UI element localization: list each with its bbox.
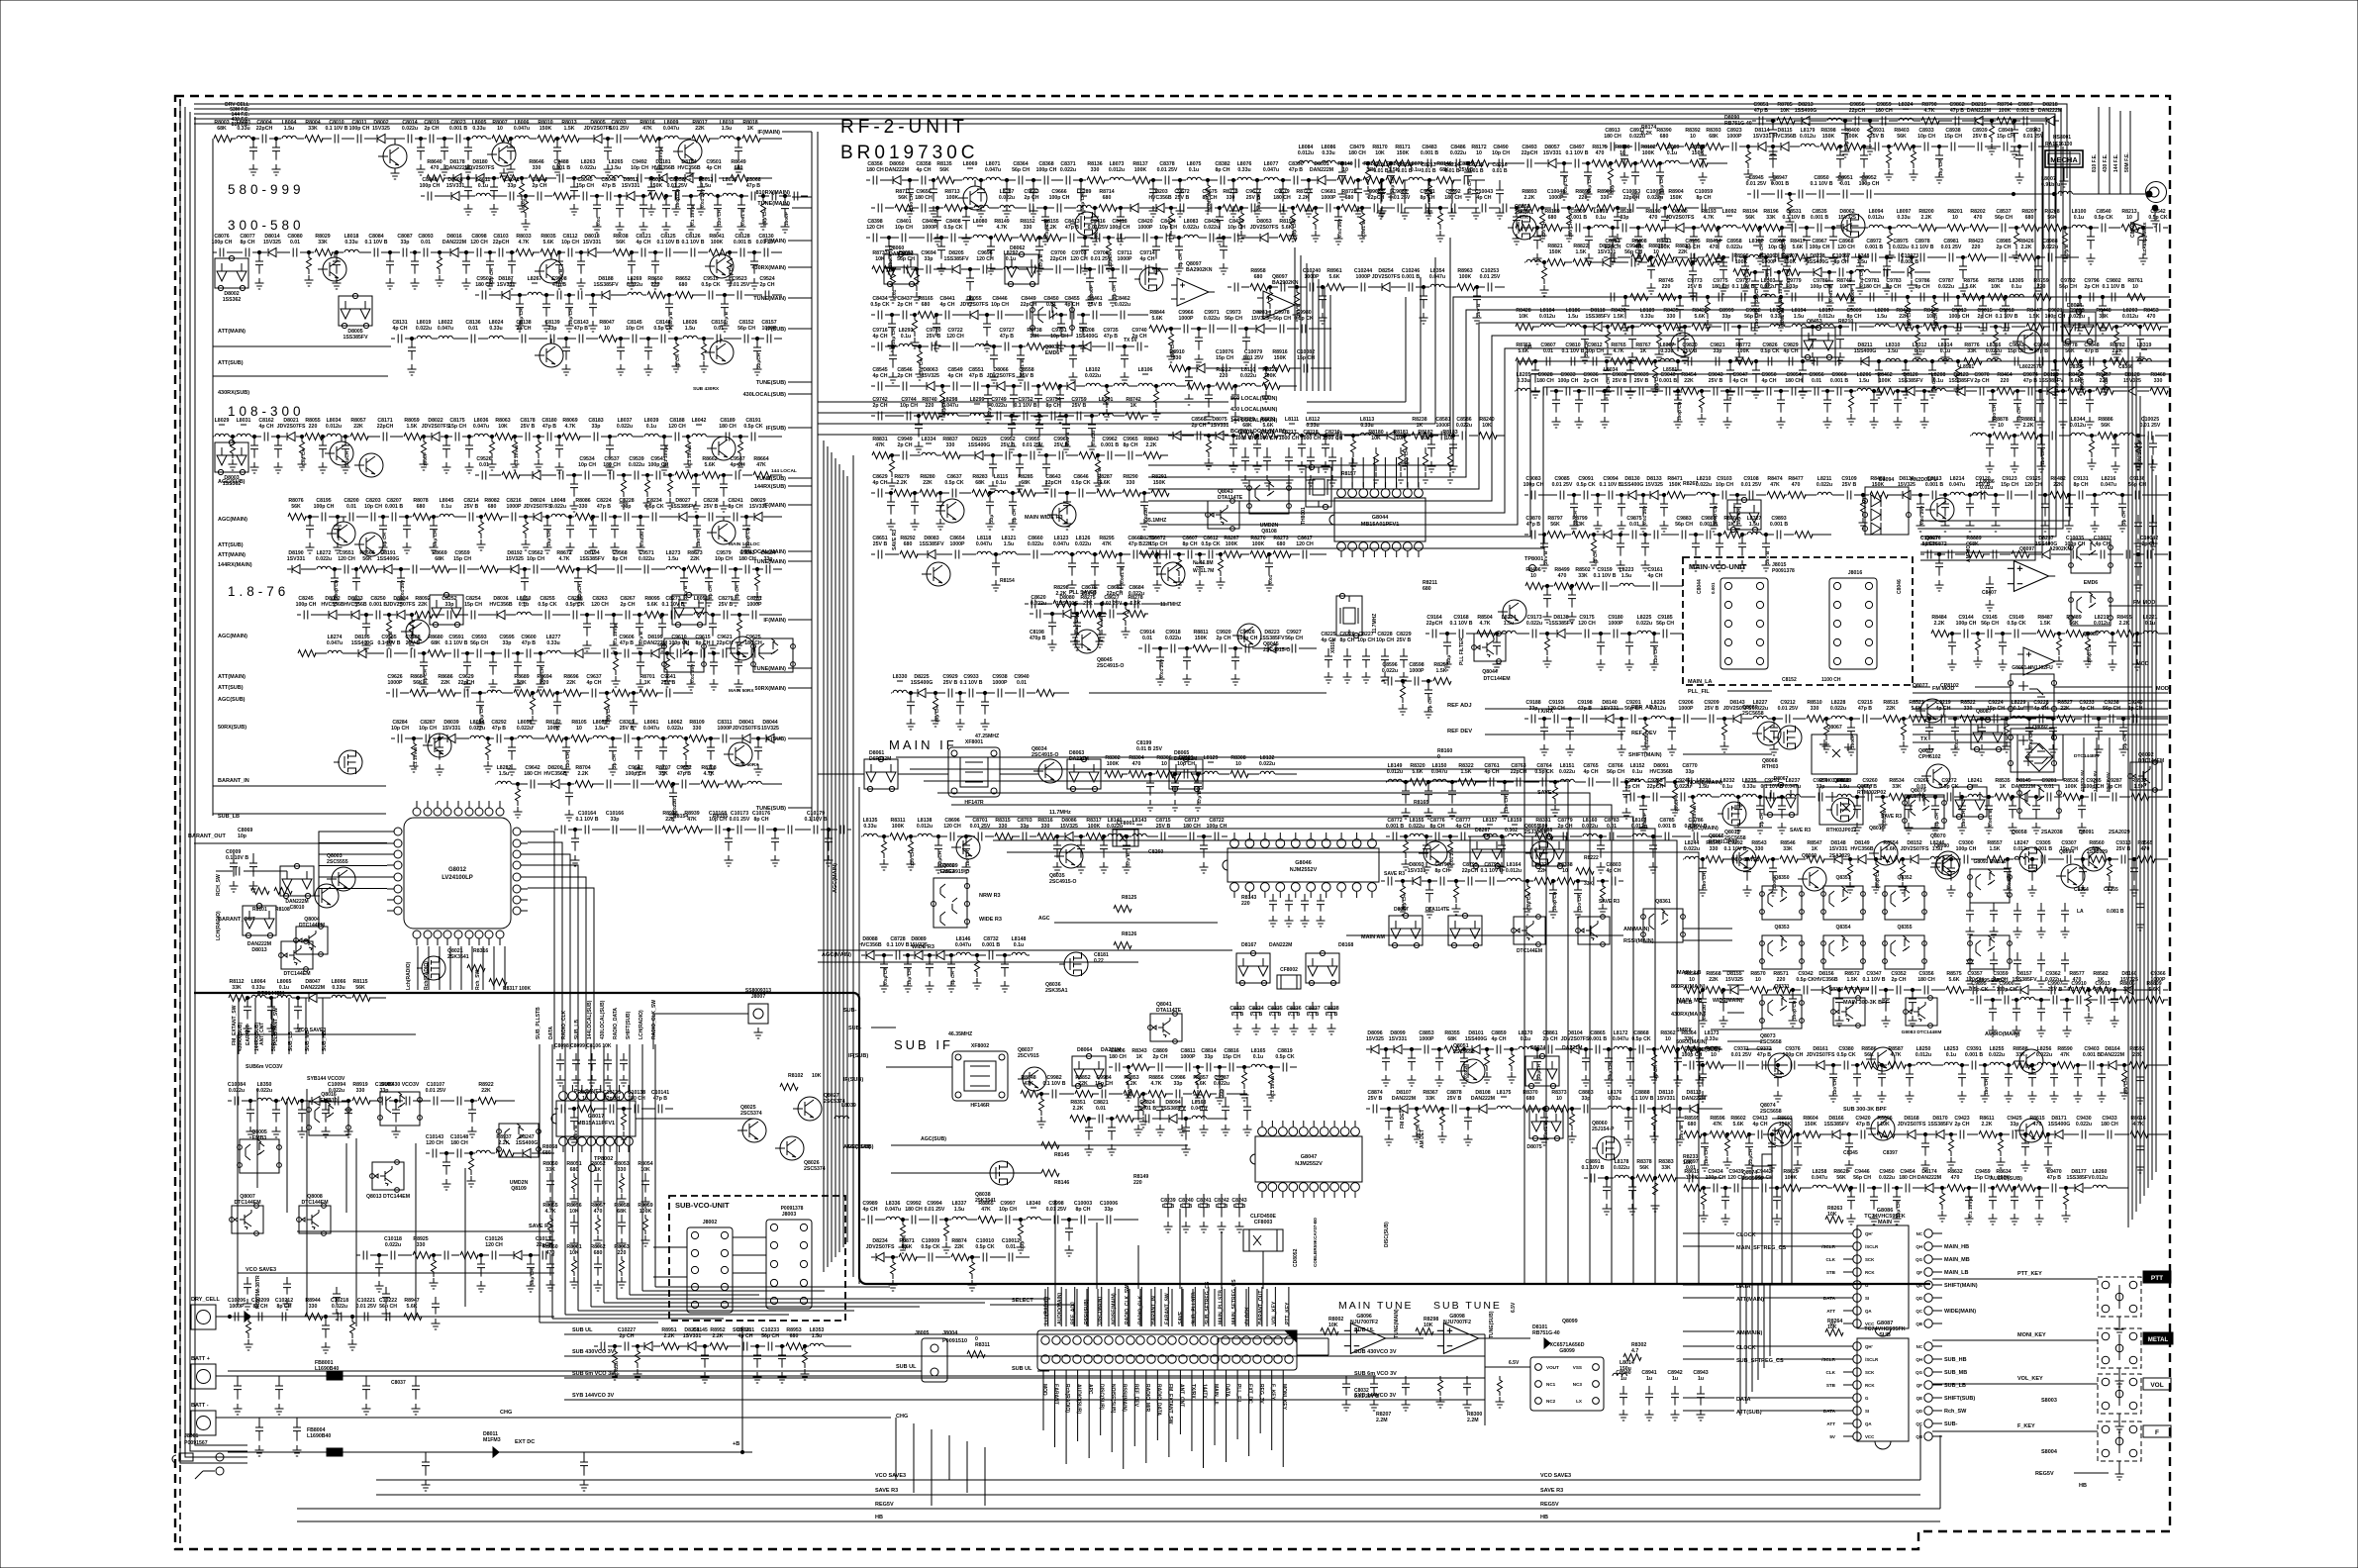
wire bbox=[212, 346, 214, 441]
node bbox=[1079, 178, 1082, 181]
svg-text:25V B: 25V B bbox=[1397, 637, 1412, 643]
capacitor C8537 bbox=[2002, 224, 2006, 233]
capacitor C8706 bbox=[1077, 836, 1085, 858]
svg-text:22pCH: 22pCH bbox=[1021, 302, 1037, 308]
wire bbox=[838, 464, 840, 1252]
node bbox=[1701, 145, 1704, 147]
svg-text:120 CH: 120 CH bbox=[946, 334, 964, 340]
svg-text:47p B: 47p B bbox=[1754, 108, 1768, 114]
ground bbox=[562, 764, 571, 775]
svg-text:8p CH: 8p CH bbox=[253, 1304, 268, 1310]
ground bbox=[570, 1277, 579, 1288]
inductor L8022 bbox=[439, 336, 452, 339]
IC XF8002 HF146R bbox=[952, 1051, 1008, 1101]
ground bbox=[610, 640, 619, 651]
node bbox=[335, 250, 338, 253]
resistor R8311 bbox=[890, 833, 908, 840]
resistor R8383 bbox=[1658, 1175, 1676, 1182]
svg-text:56K: 56K bbox=[1836, 1175, 1846, 1181]
wire bbox=[788, 393, 812, 395]
svg-text:0.047u: 0.047u bbox=[942, 403, 958, 409]
svg-text:4.7K: 4.7K bbox=[565, 424, 576, 430]
svg-text:100p CH: 100p CH bbox=[1558, 378, 1579, 384]
svg-text:0.33u: 0.33u bbox=[332, 985, 344, 991]
wire bbox=[1515, 227, 2168, 229]
ground bbox=[1117, 580, 1126, 591]
svg-text:68K: 68K bbox=[217, 126, 227, 132]
svg-text:1.5u: 1.5u bbox=[701, 183, 711, 189]
svg-text:10K: 10K bbox=[1827, 1324, 1837, 1330]
ground bbox=[1153, 580, 1162, 591]
node bbox=[1012, 384, 1015, 387]
capacitor C8402 bbox=[928, 234, 932, 243]
svg-text:0.1u: 0.1u bbox=[901, 334, 911, 340]
capacitor C8412 bbox=[1035, 238, 1043, 259]
svg-text:QH: QH bbox=[1916, 1244, 1922, 1249]
svg-text:AM DET: AM DET bbox=[1420, 1129, 1425, 1148]
svg-text:22pCH: 22pCH bbox=[577, 583, 583, 599]
diode D8060 bbox=[1676, 224, 1684, 233]
svg-text:0.001 B: 0.001 B bbox=[1901, 259, 1918, 265]
svg-text:EMD6: EMD6 bbox=[1045, 350, 1060, 356]
svg-text:PTT: PTT bbox=[2151, 1275, 2163, 1282]
inductor L8091 bbox=[1594, 225, 1608, 228]
svg-text:NOISE(MAIN): NOISE(MAIN) bbox=[1111, 1293, 1117, 1324]
svg-text:8p CH: 8p CH bbox=[1916, 284, 1930, 290]
resistor R8330 bbox=[1448, 836, 1453, 858]
svg-text:5.6K: 5.6K bbox=[1886, 846, 1897, 852]
wire bbox=[528, 865, 578, 1049]
svg-text:56p CH: 56p CH bbox=[1995, 215, 2013, 221]
diode D8101 bbox=[1472, 1045, 1480, 1054]
svg-text:0.01 B: 0.01 B bbox=[1492, 168, 1508, 174]
svg-text:DATA: DATA bbox=[1736, 1284, 1750, 1290]
svg-text:SUB 430RX: SUB 430RX bbox=[693, 386, 720, 392]
svg-text:Lch(RADIO): Lch(RADIO) bbox=[406, 961, 412, 990]
wire bbox=[818, 434, 1228, 436]
ground bbox=[298, 459, 307, 470]
node bbox=[1652, 1107, 1655, 1110]
svg-text:0.001 B: 0.001 B bbox=[1658, 824, 1676, 830]
svg-text:25V B: 25V B bbox=[1082, 591, 1097, 597]
svg-text:56p CH: 56p CH bbox=[1656, 621, 1674, 627]
node bbox=[1075, 612, 1078, 615]
capacitor C8121 bbox=[641, 248, 645, 257]
svg-text:0.01: 0.01 bbox=[290, 240, 300, 245]
svg-text:SUB IF: SUB IF bbox=[894, 1037, 953, 1052]
capacitor C8162 bbox=[264, 433, 268, 441]
capacitor C8242 bbox=[742, 517, 750, 539]
node bbox=[1599, 834, 1602, 837]
svg-text:10K: 10K bbox=[812, 1073, 822, 1079]
transistor G8030 EMG2 bbox=[932, 878, 970, 928]
svg-text:PLL_FIL: PLL_FIL bbox=[1235, 1384, 1241, 1404]
svg-text:180 CH: 180 CH bbox=[1899, 1175, 1916, 1181]
resistor R8143 bbox=[1363, 177, 1381, 184]
svg-text:6.5V: 6.5V bbox=[1509, 1360, 1520, 1366]
svg-text:4p CH: 4p CH bbox=[2096, 541, 2111, 547]
capacitor C8581 bbox=[1441, 432, 1445, 441]
svg-text:0.5p CK: 0.5p CK bbox=[1201, 541, 1221, 547]
ground bbox=[1057, 341, 1066, 351]
wire bbox=[2074, 1472, 2109, 1474]
svg-text:0.1 10V B: 0.1 10V B bbox=[377, 640, 400, 646]
svg-text:22pCH: 22pCH bbox=[1849, 108, 1866, 114]
capacitor C8525 bbox=[1756, 228, 1764, 249]
svg-text:330: 330 bbox=[417, 1242, 426, 1248]
svg-text:4p CH: 4p CH bbox=[675, 354, 681, 368]
capacitor C8191 bbox=[751, 433, 755, 441]
node bbox=[686, 435, 689, 438]
ground bbox=[410, 761, 419, 772]
wire bbox=[1271, 1370, 1273, 1450]
capacitor C8077 bbox=[246, 248, 249, 257]
capacitor C8151 bbox=[717, 335, 721, 343]
node bbox=[1404, 834, 1407, 837]
svg-text:0.012u: 0.012u bbox=[1800, 134, 1816, 140]
svg-text:4p CH: 4p CH bbox=[1762, 378, 1777, 384]
svg-text:680: 680 bbox=[594, 1250, 603, 1256]
svg-text:1.5K: 1.5K bbox=[1614, 314, 1624, 320]
wire bbox=[895, 1418, 897, 1480]
wire bbox=[1752, 1166, 1772, 1284]
resistor R8231 bbox=[1260, 433, 1278, 440]
svg-text:2.2K: 2.2K bbox=[2112, 348, 2123, 354]
node bbox=[1058, 384, 1061, 387]
wire bbox=[1742, 827, 1772, 829]
node bbox=[524, 515, 527, 518]
svg-text:IF(SUB): IF(SUB) bbox=[843, 1077, 863, 1083]
ground bbox=[606, 462, 615, 473]
svg-text:0.01: 0.01 bbox=[1094, 228, 1100, 238]
transistor Q8025 bbox=[354, 453, 383, 477]
svg-text:0.1 10V B: 0.1 10V B bbox=[2102, 284, 2124, 290]
node bbox=[510, 736, 513, 739]
ground bbox=[1378, 206, 1387, 217]
resistor R8408 bbox=[1631, 254, 1649, 261]
node bbox=[657, 137, 660, 140]
capacitor C8913 bbox=[1611, 143, 1615, 151]
svg-text:2SC5658: 2SC5658 bbox=[1453, 1049, 1475, 1055]
ground bbox=[1910, 169, 1918, 180]
capacitor C8126 bbox=[691, 248, 695, 257]
node bbox=[608, 435, 611, 438]
ground bbox=[1267, 1090, 1276, 1101]
resistor R8222 bbox=[1216, 383, 1233, 390]
svg-text:JDV2S07FS: JDV2S07FS bbox=[1807, 1052, 1835, 1058]
svg-text:DAN222M: DAN222M bbox=[643, 640, 667, 646]
svg-text:***: *** bbox=[897, 680, 904, 686]
svg-text:680: 680 bbox=[488, 504, 497, 510]
svg-text:SUB UL: SUB UL bbox=[1354, 1327, 1375, 1333]
ground bbox=[1498, 862, 1507, 873]
svg-text:56K: 56K bbox=[1639, 1165, 1649, 1171]
svg-text:0.022u: 0.022u bbox=[1382, 668, 1398, 674]
capacitor C8011 bbox=[357, 135, 361, 144]
capacitor C8501 bbox=[1631, 163, 1639, 185]
resistor R8328 bbox=[1673, 782, 1678, 804]
node bbox=[1079, 834, 1082, 837]
svg-text:180 CH: 180 CH bbox=[1504, 795, 1510, 812]
capacitor C8681 bbox=[1113, 600, 1117, 609]
svg-text:0.022u: 0.022u bbox=[1644, 734, 1650, 748]
svg-text:***: *** bbox=[967, 167, 974, 173]
wire bbox=[428, 946, 430, 990]
ground bbox=[1010, 412, 1019, 423]
svg-text:QH': QH' bbox=[1865, 1344, 1873, 1349]
resistor R8270 bbox=[1250, 551, 1268, 558]
svg-text:1000P: 1000P bbox=[1419, 1036, 1434, 1042]
capacitor C8657 bbox=[992, 554, 1000, 576]
wire bbox=[604, 1302, 985, 1304]
svg-text:330: 330 bbox=[356, 1088, 365, 1094]
capacitor C8112 bbox=[568, 248, 572, 257]
capacitor C8717 bbox=[1190, 833, 1194, 841]
svg-text:35.1MHZ: 35.1MHZ bbox=[1145, 518, 1167, 524]
capacitor C8003 bbox=[249, 139, 257, 160]
ground bbox=[1769, 172, 1778, 183]
node bbox=[653, 250, 656, 253]
svg-text:56p CH: 56p CH bbox=[1981, 621, 1999, 627]
svg-text:DTC144EM: DTC144EM bbox=[299, 923, 325, 929]
node bbox=[1125, 834, 1128, 837]
svg-text:2p CH: 2p CH bbox=[898, 373, 913, 379]
capacitor C8920 bbox=[1699, 147, 1707, 168]
svg-text:0.1u: 0.1u bbox=[2012, 284, 2021, 290]
resistor R8100 bbox=[486, 738, 491, 760]
svg-text:HVC356B: HVC356B bbox=[543, 771, 567, 777]
svg-text:MECHA: MECHA bbox=[2050, 155, 2078, 164]
node bbox=[1630, 1176, 1633, 1179]
svg-text:2p CH: 2p CH bbox=[1975, 378, 1990, 384]
node bbox=[1764, 255, 1767, 258]
svg-text:1000P: 1000P bbox=[746, 602, 762, 608]
capacitor C8939 bbox=[1978, 143, 1982, 151]
svg-text:15p CH: 15p CH bbox=[2054, 374, 2060, 391]
svg-text:1.5K: 1.5K bbox=[1461, 769, 1472, 775]
svg-text:0.01 25V: 0.01 25V bbox=[2023, 134, 2044, 140]
svg-text:DISC(MAIN): DISC(MAIN) bbox=[1098, 1297, 1104, 1324]
svg-text:0.022u: 0.022u bbox=[639, 556, 654, 562]
svg-text:0.1 B: 0.1 B bbox=[1180, 1204, 1193, 1210]
svg-text:10K: 10K bbox=[1519, 314, 1528, 320]
svg-text:2SC5658: 2SC5658 bbox=[1760, 1109, 1782, 1115]
svg-text:180 CH: 180 CH bbox=[1704, 1147, 1710, 1164]
svg-text:BARANT_OUT: BARANT_OUT bbox=[1258, 1291, 1264, 1324]
capacitor C8427 bbox=[1175, 238, 1183, 259]
diode D8021 bbox=[287, 433, 295, 441]
node bbox=[1198, 552, 1201, 555]
svg-text:0.1u: 0.1u bbox=[2074, 215, 2084, 221]
resistor R8196 bbox=[1763, 225, 1781, 232]
svg-text:144RX(SUB): 144RX(SUB) bbox=[754, 484, 786, 490]
ground bbox=[1322, 461, 1330, 472]
resistor R8414 bbox=[1706, 254, 1723, 261]
svg-text:1SV331: 1SV331 bbox=[1753, 134, 1772, 140]
svg-text:AGC(MAIN): AGC(MAIN) bbox=[218, 634, 247, 639]
node pin bbox=[1285, 1336, 1293, 1344]
svg-text:1.5K: 1.5K bbox=[1436, 668, 1447, 674]
capacitor C8765 bbox=[1589, 778, 1593, 787]
svg-text:Q8070: Q8070 bbox=[1930, 833, 1946, 839]
capacitor C8076 bbox=[220, 248, 224, 257]
svg-text:4p CH: 4p CH bbox=[1492, 1036, 1507, 1042]
wire bbox=[823, 441, 825, 1272]
resistor R8254 bbox=[1401, 681, 1406, 703]
diode D8267 bbox=[1470, 833, 1504, 868]
svg-text:JDV2S07FS: JDV2S07FS bbox=[1372, 274, 1401, 280]
svg-text:22pCH: 22pCH bbox=[1050, 256, 1067, 262]
svg-text:0.012u: 0.012u bbox=[1539, 314, 1555, 320]
resistor R8102 bbox=[545, 735, 563, 742]
transistor Q8077 bbox=[1592, 1136, 1621, 1160]
diode D8002 bbox=[377, 135, 385, 144]
diode D8018 bbox=[588, 248, 596, 257]
svg-text:TX/RX: TX/RX bbox=[1190, 1384, 1196, 1399]
diode D8114 bbox=[1758, 143, 1766, 151]
capacitor C8371 bbox=[1066, 176, 1070, 185]
svg-text:180 CH: 180 CH bbox=[1712, 284, 1729, 290]
ground bbox=[1533, 253, 1542, 264]
capacitor C8600 bbox=[1425, 681, 1432, 703]
resistor R8182 bbox=[1640, 160, 1658, 167]
capacitor C8390 bbox=[1294, 176, 1298, 185]
resistor R8322 bbox=[1458, 779, 1476, 786]
capacitor C8195 bbox=[322, 513, 326, 522]
inductor L8097 bbox=[1897, 225, 1911, 228]
capacitor C8294 bbox=[508, 738, 516, 760]
diode D8108 bbox=[1479, 1105, 1487, 1114]
node bbox=[1562, 161, 1565, 164]
wire bbox=[345, 1143, 347, 1213]
svg-text:SCK: SCK bbox=[1865, 1257, 1875, 1262]
node bbox=[2052, 192, 2055, 195]
svg-text:NC: NC bbox=[1916, 1231, 1923, 1236]
transistor Q8043 bbox=[958, 186, 987, 210]
svg-text:HS8001: HS8001 bbox=[2053, 135, 2071, 141]
svg-text:0.01 B: 0.01 B bbox=[1373, 168, 1389, 174]
capacitor C8824 bbox=[1145, 1115, 1149, 1124]
transistor Q8041 bbox=[1148, 1012, 1182, 1044]
capacitor C8461 bbox=[1093, 311, 1097, 320]
inductor L8006 bbox=[515, 136, 529, 139]
capacitor C8862 bbox=[1582, 1049, 1590, 1071]
svg-text:25V B: 25V B bbox=[1870, 134, 1885, 140]
node bbox=[2089, 226, 2092, 229]
svg-text:47K: 47K bbox=[1024, 1081, 1033, 1087]
svg-text:10p CH: 10p CH bbox=[391, 726, 409, 732]
capacitor C8576 bbox=[1322, 436, 1329, 457]
node bbox=[364, 613, 367, 616]
svg-text:10: 10 bbox=[576, 726, 582, 732]
capacitor C8265 bbox=[610, 615, 618, 637]
svg-text:120 CH: 120 CH bbox=[1578, 621, 1596, 627]
resistor R8332 bbox=[1401, 881, 1406, 903]
inductor L8084 bbox=[1299, 160, 1313, 163]
svg-text:IF(MAIN): IF(MAIN) bbox=[763, 618, 786, 624]
wire bbox=[1407, 457, 1409, 487]
ground bbox=[1582, 1075, 1591, 1086]
capacitor C8906 bbox=[1645, 1386, 1653, 1406]
svg-text:33p: 33p bbox=[1722, 314, 1731, 320]
capacitor C8214 bbox=[469, 513, 473, 522]
resistor R8312 bbox=[909, 836, 914, 858]
svg-text:2p CH: 2p CH bbox=[533, 183, 547, 189]
svg-text:D8064: D8064 bbox=[1077, 1047, 1092, 1053]
svg-text:SMRX: SMRX bbox=[1676, 1028, 1692, 1033]
node bbox=[442, 137, 445, 140]
svg-text:0.001 B: 0.001 B bbox=[1780, 310, 1786, 327]
svg-text:Rch_SW: Rch_SW bbox=[475, 969, 481, 990]
wire bbox=[528, 888, 594, 1049]
svg-text:100K: 100K bbox=[892, 824, 905, 830]
svg-text:68K: 68K bbox=[617, 1209, 627, 1215]
svg-text:SUB UL: SUB UL bbox=[1012, 1366, 1032, 1372]
svg-text:0.5p CK: 0.5p CK bbox=[975, 1244, 995, 1250]
svg-text:56p CH: 56p CH bbox=[2059, 284, 2077, 290]
svg-text:0.1u: 0.1u bbox=[478, 183, 488, 189]
resistor R8202 bbox=[1970, 225, 1988, 232]
svg-text:SHIFT(SUB): SHIFT(SUB) bbox=[626, 1011, 632, 1039]
resistor R8291 bbox=[1151, 490, 1169, 497]
capacitor C8026 bbox=[507, 139, 515, 160]
svg-text:10p CH: 10p CH bbox=[891, 328, 897, 344]
resistor R8417 bbox=[1790, 254, 1808, 261]
capacitor C8382 bbox=[1221, 176, 1225, 185]
svg-text:100p CH: 100p CH bbox=[1956, 846, 1977, 852]
svg-text:0.01: 0.01 bbox=[346, 504, 356, 510]
svg-text:330: 330 bbox=[1811, 706, 1819, 712]
ground bbox=[644, 364, 653, 375]
resistor R8337 bbox=[1534, 878, 1552, 885]
svg-text:22K: 22K bbox=[1684, 378, 1694, 384]
svg-text:33p: 33p bbox=[508, 183, 517, 189]
resistor R8403 bbox=[1894, 144, 1912, 150]
svg-text:VSS: VSS bbox=[1573, 1365, 1582, 1370]
capacitor C8720 bbox=[1200, 836, 1208, 858]
svg-text:120 CH: 120 CH bbox=[591, 602, 609, 608]
resistor R8365 bbox=[1415, 1109, 1420, 1130]
capacitor C8554 bbox=[984, 386, 992, 408]
node bbox=[738, 435, 741, 438]
svg-text:180 CH: 180 CH bbox=[905, 1207, 923, 1213]
svg-text:0.022u: 0.022u bbox=[1214, 1081, 1229, 1087]
svg-text:***: *** bbox=[696, 424, 703, 430]
svg-text:SUB-: SUB- bbox=[843, 1008, 857, 1014]
svg-text:15p CH: 15p CH bbox=[1404, 448, 1410, 465]
capacitor C8254 bbox=[471, 611, 475, 620]
svg-text:15p CH: 15p CH bbox=[464, 602, 482, 608]
svg-text:100K: 100K bbox=[711, 240, 724, 245]
svg-text:CD8052: CD8052 bbox=[1293, 1248, 1299, 1267]
node bbox=[479, 515, 482, 518]
wire bbox=[913, 1423, 915, 1493]
svg-text:4p CH: 4p CH bbox=[1784, 348, 1799, 354]
svg-text:J8002: J8002 bbox=[703, 1220, 718, 1225]
svg-text:22pCH: 22pCH bbox=[1522, 150, 1538, 156]
svg-text:AGC(SUB): AGC(SUB) bbox=[843, 1144, 871, 1150]
inductor L8155 bbox=[1410, 833, 1424, 836]
node bbox=[940, 384, 943, 387]
svg-text:120 CH: 120 CH bbox=[1070, 256, 1088, 262]
svg-text:METAL: METAL bbox=[2148, 1337, 2169, 1343]
node bbox=[1692, 226, 1695, 229]
wire bbox=[213, 138, 782, 140]
wire bbox=[1234, 1287, 1236, 1326]
ground bbox=[1425, 907, 1434, 918]
transistor Q8019 bbox=[325, 441, 353, 465]
ground bbox=[1452, 904, 1461, 915]
